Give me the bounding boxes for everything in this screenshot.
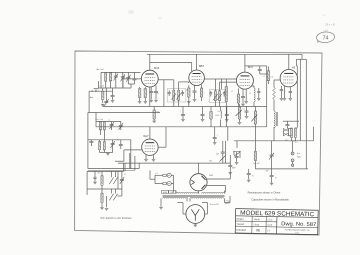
label value 6	[262, 76, 264, 78]
svg-text:.02: .02	[249, 93, 251, 95]
svg-text:R1: R1	[242, 109, 244, 111]
wire terminal link	[292, 162, 294, 164]
svg-text:6A7: 6A7	[143, 134, 149, 138]
capacitor C6	[133, 79, 137, 80]
switch arrow S3a	[109, 178, 113, 185]
note resistances	[248, 191, 281, 195]
wire plate tap down	[163, 80, 165, 107]
svg-text:2.0.3: 2.0.3	[267, 219, 273, 221]
ground osc	[106, 153, 110, 155]
wire bus mid1	[103, 106, 267, 108]
wire V2 plate	[196, 54, 198, 70]
wire C17	[202, 107, 204, 120]
screen resistor R17	[153, 110, 155, 119]
wire V1 cathode	[140, 86, 156, 102]
ground C14	[280, 99, 284, 101]
label winding tap A	[161, 190, 168, 194]
ground V2 cathode	[193, 100, 197, 102]
padder capacitor C5	[126, 75, 130, 82]
wire bus mid2	[88, 112, 160, 114]
wire R7	[225, 79, 227, 127]
ground bsw1	[100, 208, 104, 210]
label R4 speaker	[285, 140, 288, 142]
label value 12	[108, 120, 110, 122]
IF transformer T2 box	[210, 89, 227, 103]
label value 10	[180, 111, 181, 113]
osc coil L3	[103, 122, 105, 131]
label V3 6D7	[248, 65, 254, 69]
power transformer primary	[176, 192, 225, 193]
label value 0	[143, 90, 144, 92]
volume pot R16	[238, 107, 240, 119]
wire V7 sides	[178, 203, 208, 215]
capacitor C25	[221, 152, 225, 153]
wire T1 bottom	[169, 90, 182, 106]
power transformer secondary	[163, 197, 224, 198]
wire rail C top bend	[297, 54, 303, 66]
capacitor C32 8MF	[270, 176, 277, 180]
resistor R10 zigzag	[273, 88, 276, 100]
capacitor C24	[213, 138, 217, 139]
terminal ext spkr 3	[291, 164, 293, 166]
capacitor C17	[201, 115, 205, 116]
capacitor C9	[193, 91, 197, 92]
band coil L5	[101, 176, 103, 186]
wire heater bus	[118, 162, 230, 164]
capacitor C15	[285, 125, 289, 126]
capacitor C16	[181, 115, 185, 116]
tube V7 80	[186, 205, 205, 224]
svg-text:6B7: 6B7	[199, 64, 205, 68]
pot2 wiper	[251, 115, 257, 122]
power transformer core	[163, 195, 225, 196]
wire C12b	[258, 88, 260, 98]
svg-text:.1: .1	[203, 93, 204, 95]
label Ant	[90, 96, 94, 99]
band coil L6	[101, 193, 103, 203]
switch arrow S3d	[113, 194, 117, 201]
svg-text:.02: .02	[124, 174, 126, 176]
wire bsw to heater	[123, 163, 125, 171]
resistor R13	[210, 112, 212, 120]
label winding tap B	[169, 190, 176, 194]
wire V1 centre drop	[149, 87, 151, 107]
svg-text:S/C Switch in AC Position: S/C Switch in AC Position	[100, 217, 132, 220]
capacitor C36	[289, 92, 292, 93]
wire V3 plate	[244, 54, 246, 72]
output transformer windings	[291, 128, 297, 138]
AF choke L8	[274, 111, 277, 128]
resistor R7	[225, 87, 227, 102]
svg-text:Ext.: Ext.	[297, 152, 301, 155]
svg-text:C.1-45: C.1-45	[98, 86, 105, 88]
label V6	[209, 175, 214, 177]
label V4 42	[292, 66, 296, 70]
ground C29	[235, 163, 239, 165]
wire ant section verticals	[106, 72, 123, 88]
svg-text:Lloyd: Lloyd	[254, 224, 260, 226]
label R4b	[209, 161, 212, 163]
label V5	[143, 134, 149, 138]
wire heater drops2	[130, 153, 139, 170]
ground V1 cathode	[149, 100, 153, 102]
svg-text:Drawn: Drawn	[237, 218, 245, 221]
capacitor C8	[154, 92, 158, 93]
tube V2 6B7	[189, 70, 205, 86]
component ML	[254, 152, 256, 161]
wire R11	[267, 67, 269, 85]
ground PT left	[159, 207, 163, 209]
wire bus y140.8	[234, 140, 314, 142]
label value 16	[217, 135, 218, 137]
tube V6	[190, 174, 207, 191]
trimmer C34	[120, 177, 124, 184]
circled number 74	[316, 31, 335, 43]
ground C12b	[257, 99, 261, 101]
wire R17	[153, 107, 155, 121]
antenna coil L1	[105, 72, 107, 81]
wire C30	[271, 141, 273, 169]
wire T1 grid link	[179, 82, 189, 83]
wire C25	[222, 141, 224, 163]
resistor R15	[99, 142, 101, 150]
wire ML	[254, 141, 256, 169]
title block	[235, 209, 318, 235]
ground R5	[187, 102, 191, 104]
svg-text:Traced: Traced	[236, 223, 244, 226]
wire L8	[273, 127, 275, 141]
svg-text:Dm on SC: Dm on SC	[210, 204, 220, 206]
svg-text:6D7: 6D7	[248, 65, 254, 69]
capacitor C4	[111, 96, 115, 97]
IF transformer T1 box	[167, 89, 186, 102]
handwritten pencil note	[322, 15, 335, 33]
ground C16	[181, 120, 185, 122]
wire bsw top	[87, 170, 123, 172]
wire T2 leads	[204, 79, 219, 91]
ground below V3a	[241, 104, 245, 106]
label value 14	[124, 174, 126, 176]
wire bsw left	[86, 171, 88, 195]
label value 9	[217, 111, 221, 113]
wire left drop	[88, 91, 90, 112]
wire heater drops	[124, 163, 126, 171]
IF transformer T1 trimmer caps	[168, 93, 184, 94]
wire T1 top leads	[158, 80, 178, 91]
tube V4 42	[280, 70, 297, 87]
label value 3	[203, 93, 204, 95]
ground V5a	[144, 160, 148, 162]
wire C32	[271, 169, 273, 183]
wire V6 top	[198, 163, 200, 174]
IF transformer T2 arrows	[213, 94, 221, 100]
capacitor C12	[241, 97, 245, 98]
wire osc left drop2	[87, 140, 89, 169]
resistor R1	[109, 73, 111, 82]
svg-text:25M: 25M	[156, 112, 160, 114]
wire ant section top	[101, 72, 123, 88]
label lamp	[155, 173, 157, 175]
svg-text:42: 42	[292, 66, 296, 70]
ground C31	[247, 180, 251, 182]
resistor R5	[188, 88, 190, 97]
ground C17	[201, 120, 205, 122]
label R4 switch	[216, 154, 219, 156]
svg-text:.5: .5	[284, 91, 285, 93]
wire speaker links	[289, 128, 298, 141]
wire T2 bottom	[211, 91, 224, 107]
capacitor C31 8MF	[247, 174, 254, 178]
coupling capacitor C13	[258, 70, 262, 71]
wire grid drop x130.8	[130, 140, 132, 169]
wire C13	[245, 66, 267, 74]
wire PT leads	[161, 191, 225, 207]
label value 4	[231, 91, 233, 93]
pilot lamp P1	[167, 173, 171, 177]
ground C24	[213, 143, 217, 145]
svg-text:29 x + B: 29 x + B	[325, 23, 335, 27]
svg-text:4.0.3: 4.0.3	[267, 225, 273, 227]
ground below V3b	[244, 102, 248, 104]
resistor R4	[144, 89, 146, 98]
ground C35	[93, 182, 97, 184]
capacitor C35	[93, 177, 96, 178]
ground R3	[138, 102, 147, 104]
svg-text:6D6: 6D6	[154, 66, 160, 70]
wire V2 below	[189, 85, 202, 101]
wire C31	[248, 169, 250, 180]
wire under V4	[285, 86, 291, 98]
svg-text:.1: .1	[180, 111, 181, 113]
capacitor C33	[228, 166, 236, 170]
wire rail top link	[297, 58, 307, 60]
wire osc mid row	[91, 139, 131, 141]
wire C29	[236, 152, 238, 162]
trimmer C20	[119, 123, 123, 130]
svg-text:.1: .1	[143, 90, 144, 92]
wire V1 left lead	[123, 79, 141, 88]
ground C8	[154, 100, 158, 102]
wire osc lower	[91, 130, 120, 153]
wire osc bottom join	[100, 152, 113, 154]
wire C18	[226, 107, 228, 120]
svg-text:Mic-Vol: Mic-Vol	[254, 163, 260, 165]
label value 13	[116, 140, 118, 142]
resistor R6	[200, 88, 202, 97]
note switch position	[100, 217, 132, 220]
schematic sheet border	[75, 51, 322, 235]
trimmer C19	[110, 122, 114, 129]
svg-text:Resistances shown in Ohms: Resistances shown in Ohms	[248, 191, 281, 195]
wire S2	[234, 141, 240, 158]
svg-text:Ae Coil: Ae Coil	[96, 68, 104, 71]
resistor R3	[139, 89, 141, 98]
capacitor C7	[149, 92, 153, 93]
svg-text:.1: .1	[217, 135, 218, 137]
ground V7	[194, 225, 198, 227]
svg-text:MODEL 629 SCHEMATIC: MODEL 629 SCHEMATIC	[240, 210, 315, 218]
wire bsw lower	[102, 189, 122, 207]
pot wiper	[236, 110, 242, 116]
svg-text:74: 74	[323, 35, 329, 41]
resistor lamp series	[163, 174, 167, 185]
terminal ext spkr 1	[291, 152, 294, 155]
ground C27	[245, 117, 249, 119]
paper smudge	[128, 10, 162, 19]
label voice coil	[295, 142, 299, 144]
ground R17	[152, 121, 156, 123]
wire lamp wiring	[150, 170, 174, 192]
label value 2	[185, 90, 188, 92]
wire C24	[214, 127, 216, 142]
wire rail B	[299, 59, 301, 141]
svg-text:.0001: .0001	[94, 90, 98, 92]
svg-text:.05: .05	[157, 93, 159, 95]
osc coil L4	[103, 142, 105, 151]
ground C33	[229, 173, 233, 175]
wire AVC bus	[96, 126, 267, 128]
switch arrow S3c	[109, 194, 113, 201]
wire field coil drop	[292, 141, 294, 152]
coil choke L2	[221, 111, 222, 119]
capacitor C14	[280, 90, 283, 91]
wire V6 right2	[207, 186, 226, 193]
resistor R2	[102, 91, 104, 99]
junction dots	[91, 91, 96, 92]
wire PT right link	[225, 196, 231, 203]
capacitor C29	[235, 157, 239, 158]
ground pot	[238, 123, 242, 125]
capacitor C27	[245, 111, 249, 112]
junction row wire	[89, 88, 131, 91]
svg-text:50M: 50M	[217, 111, 221, 113]
svg-text:Wade: Wade	[254, 219, 261, 221]
ground C4	[111, 101, 115, 103]
wire bus y163 drop	[226, 127, 228, 163]
label Dm on SC	[210, 204, 220, 206]
IF transformer T2 windings	[214, 91, 220, 101]
label value 8	[284, 91, 285, 93]
resistor R14	[99, 122, 101, 131]
wire osc left drop	[88, 113, 92, 140]
wire V4 plate	[288, 54, 290, 69]
wire C33	[229, 155, 231, 172]
wire pot2	[254, 107, 256, 141]
wire into V1 grid	[123, 72, 141, 88]
ground ant section	[101, 104, 105, 106]
wire R10	[274, 80, 280, 111]
svg-text:Checked: Checked	[236, 229, 246, 232]
trimmer C22	[111, 141, 115, 148]
wire V6 bottom	[198, 191, 200, 194]
wire C16	[182, 107, 184, 120]
wire V5 top	[149, 127, 151, 139]
label value 7	[270, 77, 274, 79]
svg-text:C2: C2	[108, 120, 110, 122]
resistor R8	[237, 94, 239, 103]
wire osc-avc link	[95, 122, 97, 127]
svg-text:V.C.: V.C.	[295, 142, 299, 144]
volume pot R18	[254, 111, 256, 124]
wire plate line y79	[215, 78, 236, 80]
IF transformer T1 windings	[173, 90, 180, 100]
label osc coil	[95, 119, 103, 121]
wire L2	[220, 107, 222, 127]
wire R13	[210, 107, 212, 127]
label ML	[254, 163, 260, 165]
ground bsw2	[105, 208, 109, 210]
trimmer capacitor C3	[104, 99, 108, 106]
wire L7	[252, 86, 255, 107]
svg-text:Dwg. No. 587: Dwg. No. 587	[281, 221, 316, 228]
label V1 6D6	[154, 66, 160, 70]
antenna lead-in arrow	[94, 81, 99, 89]
label value 5	[249, 93, 251, 95]
wire below V3	[238, 89, 246, 107]
label aerial coil	[96, 68, 104, 71]
tube V3 6D7	[236, 72, 253, 89]
terminal ext spkr 2	[291, 159, 294, 162]
wire long vertical	[260, 66, 267, 127]
wire V1 top link	[150, 63, 192, 72]
wire V5 bottom	[146, 155, 154, 160]
speaker horn	[283, 129, 288, 136]
label R13	[215, 115, 220, 117]
ground V4	[283, 99, 292, 101]
wire rail C	[305, 59, 307, 169]
label value 18	[265, 171, 268, 173]
wire bsw mid	[87, 171, 122, 189]
plate choke L7	[254, 88, 255, 102]
wire V7	[194, 223, 196, 224]
ground C18	[225, 120, 229, 122]
wire bus y168.9	[255, 168, 308, 170]
trimmer capacitor C1	[114, 74, 118, 81]
label C1-45	[98, 86, 105, 88]
wire V6 right	[207, 172, 230, 179]
wire B+ top bus	[147, 53, 302, 55]
pilot lamp P2	[167, 182, 171, 186]
wire pot	[240, 104, 247, 122]
label value 11	[156, 112, 160, 114]
svg-text:Capacities shown in Microfa: Capacities shown in Microfarads	[251, 198, 289, 202]
wire R2 leads	[103, 88, 113, 103]
wire V5 right	[158, 127, 166, 147]
capacitor C23	[119, 145, 123, 146]
wire x221.6 drop	[221, 79, 223, 89]
varcap C26	[220, 156, 226, 162]
wire C14	[280, 86, 282, 98]
wire V1 plate	[149, 54, 151, 70]
svg-text:Ant: Ant	[90, 96, 94, 99]
IF transformer T1 arrows	[172, 94, 181, 100]
switch S2	[233, 151, 240, 156]
wire C35	[95, 171, 118, 189]
svg-text:C3: C3	[116, 140, 118, 142]
varcap C30	[269, 153, 274, 160]
ground C32	[270, 183, 274, 185]
label trans	[225, 201, 230, 206]
svg-text:.01: .01	[262, 76, 264, 78]
wire C15	[283, 121, 299, 128]
capacitor C18	[225, 115, 229, 116]
wire T2 grid link	[220, 81, 237, 83]
label ext spkr	[297, 152, 301, 159]
wire mid verticals	[103, 101, 189, 107]
wire heater bus2	[88, 169, 139, 171]
label V2 6B7	[199, 64, 205, 68]
label value 1	[157, 93, 159, 95]
